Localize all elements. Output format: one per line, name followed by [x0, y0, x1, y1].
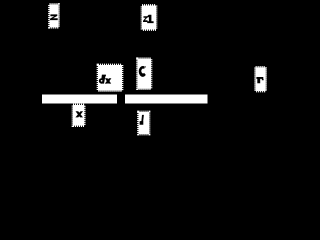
label box l (length l) — [139, 112, 150, 134]
label box z (impedance z) — [50, 5, 59, 28]
label box C (capacitance C) — [138, 59, 152, 89]
label box dx (element length dx) — [98, 65, 122, 91]
label box z1 (impedance z1) — [142, 6, 156, 30]
plate right (conductor segment) — [125, 95, 208, 104]
label box x (coordinate x) — [73, 105, 84, 126]
plate left (conductor segment) — [42, 95, 117, 104]
label box r (resistance r) — [256, 67, 266, 91]
